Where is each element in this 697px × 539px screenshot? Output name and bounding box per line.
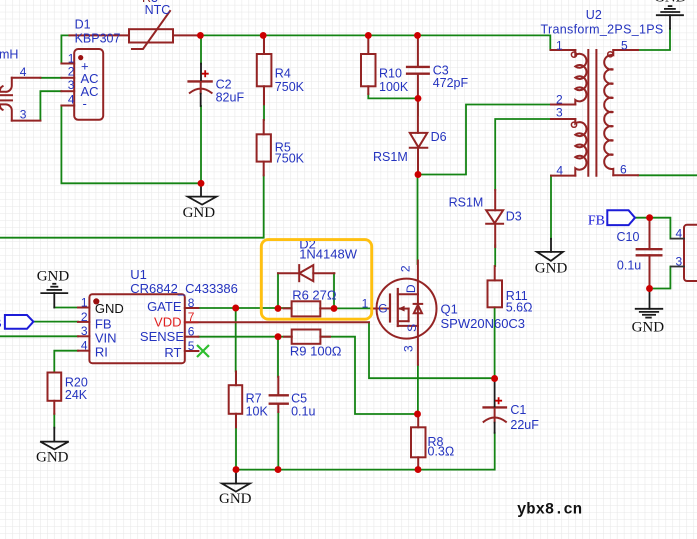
svg-text:4: 4 [556, 164, 563, 178]
svg-text:2: 2 [399, 265, 413, 272]
svg-text:GND: GND [36, 450, 69, 466]
svg-text:mH: mH [0, 48, 18, 62]
svg-text:D: D [404, 284, 418, 293]
svg-text:5: 5 [188, 339, 195, 353]
svg-text:D1: D1 [75, 18, 91, 32]
svg-text:3: 3 [556, 106, 563, 120]
svg-text:C1: C1 [510, 403, 526, 417]
svg-text:GND: GND [183, 205, 216, 221]
svg-text:SENSE: SENSE [140, 329, 184, 344]
svg-text:5: 5 [621, 39, 628, 53]
svg-text:B: B [0, 317, 2, 332]
svg-text:GND: GND [95, 301, 124, 316]
svg-text:G: G [378, 302, 387, 316]
svg-text:750K: 750K [275, 151, 305, 165]
svg-text:6: 6 [188, 325, 195, 339]
svg-text:3: 3 [676, 255, 683, 269]
svg-text:0.1u: 0.1u [617, 259, 641, 273]
svg-text:3: 3 [402, 345, 416, 352]
svg-text:FB: FB [95, 316, 112, 331]
svg-text:RI: RI [95, 344, 108, 359]
svg-text:1: 1 [81, 296, 88, 310]
svg-text:3: 3 [68, 78, 75, 92]
svg-text:R9 100Ω: R9 100Ω [290, 344, 342, 359]
svg-text:750K: 750K [275, 80, 305, 94]
svg-text:3: 3 [81, 324, 88, 338]
svg-text:RS1M: RS1M [449, 196, 484, 210]
svg-text:VDD: VDD [154, 315, 181, 330]
svg-text:1: 1 [68, 52, 75, 66]
svg-text:U1: U1 [130, 267, 147, 282]
svg-text:4: 4 [20, 65, 27, 79]
svg-text:Transform_2PS_1PS: Transform_2PS_1PS [541, 23, 664, 37]
svg-text:24K: 24K [65, 388, 88, 402]
svg-text:1: 1 [362, 297, 369, 311]
svg-text:8: 8 [188, 296, 195, 310]
svg-text:GND: GND [219, 491, 252, 507]
svg-text:22uF: 22uF [510, 418, 539, 432]
svg-text:VIN: VIN [95, 330, 117, 345]
svg-text:0.3Ω: 0.3Ω [428, 445, 455, 459]
svg-text:2: 2 [68, 65, 75, 79]
svg-text:1: 1 [556, 39, 563, 53]
svg-text:GND: GND [654, 0, 687, 6]
svg-text:5.6Ω: 5.6Ω [506, 301, 533, 315]
svg-text:2: 2 [556, 93, 563, 107]
svg-text:FB: FB [588, 214, 605, 229]
svg-text:GATE: GATE [147, 299, 182, 314]
svg-text:C2: C2 [216, 77, 232, 91]
svg-text:4: 4 [68, 93, 75, 107]
svg-text:-: - [83, 96, 87, 111]
svg-text:U2: U2 [586, 8, 602, 22]
svg-text:KBP307: KBP307 [75, 32, 121, 46]
svg-text:CR6842_C433386: CR6842_C433386 [130, 281, 238, 296]
svg-text:S: S [405, 324, 419, 332]
svg-text:RS1M: RS1M [373, 150, 408, 164]
svg-text:R4: R4 [275, 67, 291, 81]
svg-text:0.1u: 0.1u [291, 404, 315, 418]
svg-text:1N4148W: 1N4148W [299, 247, 358, 262]
svg-text:82uF: 82uF [216, 91, 245, 105]
svg-text:C10: C10 [617, 230, 640, 244]
svg-text:SPW20N60C3: SPW20N60C3 [441, 316, 526, 331]
svg-text:7: 7 [188, 310, 195, 324]
svg-text:D6: D6 [431, 130, 447, 144]
svg-text:RT: RT [164, 345, 181, 360]
svg-text:100K: 100K [379, 80, 409, 94]
svg-text:6: 6 [620, 163, 627, 177]
svg-text:10K: 10K [246, 404, 269, 418]
svg-text:Q1: Q1 [441, 302, 458, 317]
svg-text:ybx8.cn: ybx8.cn [517, 501, 582, 519]
svg-text:GND: GND [535, 261, 568, 277]
svg-text:GND: GND [37, 269, 70, 285]
svg-text:3: 3 [20, 108, 27, 122]
svg-text:R6 27Ω: R6 27Ω [292, 288, 337, 303]
svg-text:4: 4 [81, 339, 88, 353]
svg-text:4: 4 [676, 227, 683, 241]
svg-text:GND: GND [632, 320, 665, 336]
svg-text:D3: D3 [506, 210, 522, 224]
svg-text:NTC: NTC [145, 3, 171, 17]
svg-text:R10: R10 [379, 67, 402, 81]
svg-text:2: 2 [81, 310, 88, 324]
svg-text:472pF: 472pF [433, 76, 469, 90]
